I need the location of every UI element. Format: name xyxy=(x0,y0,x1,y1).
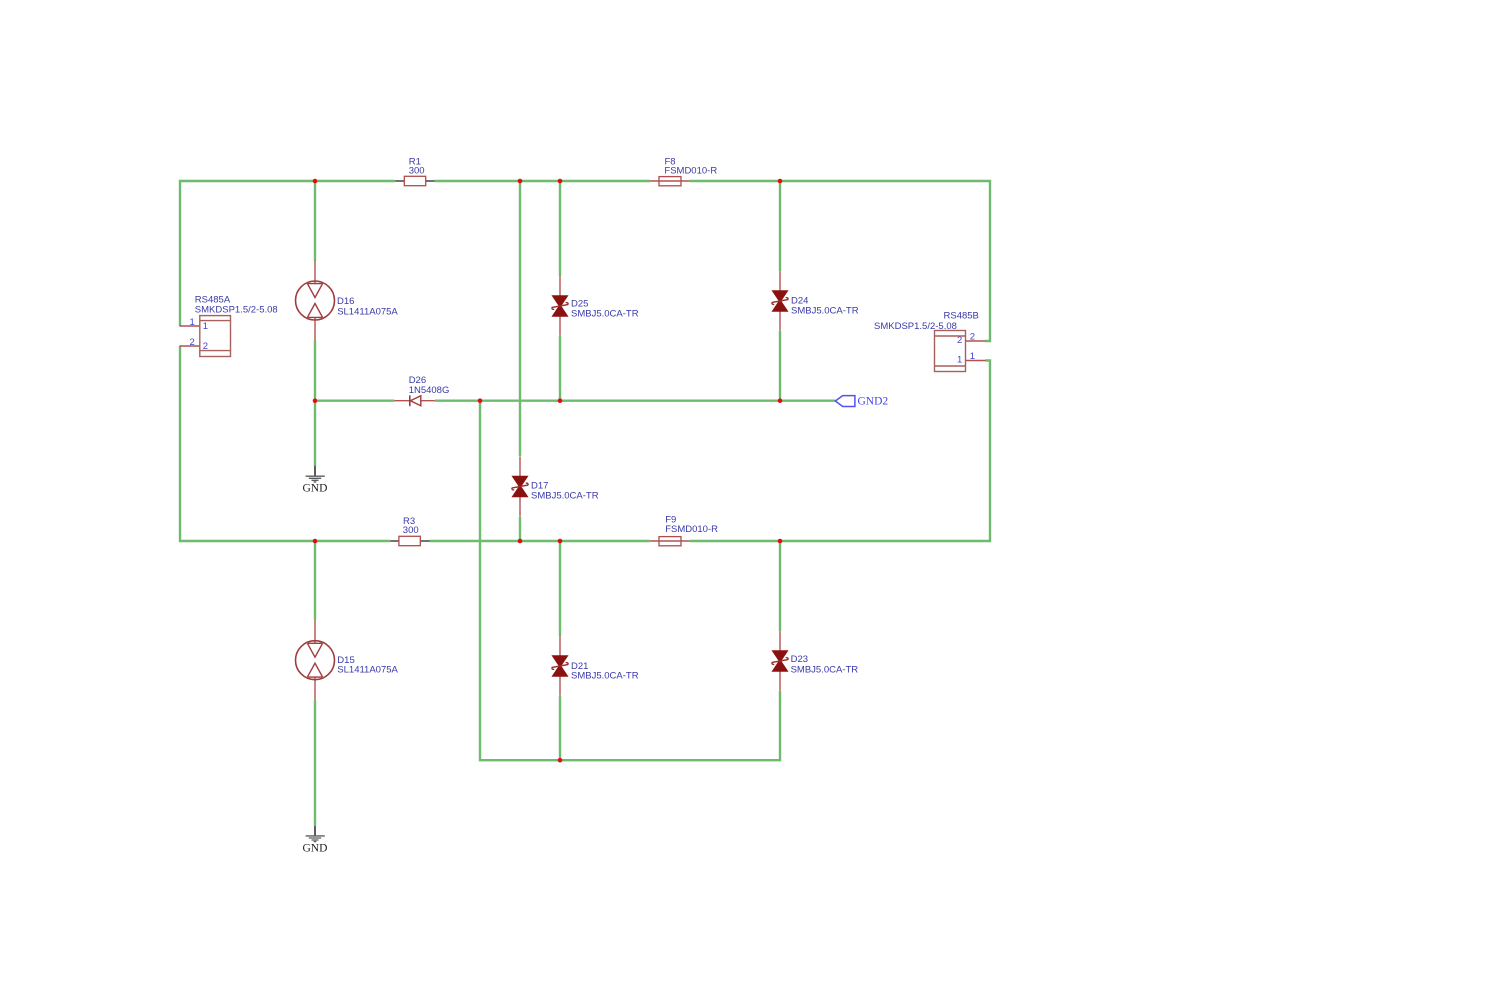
wire top rail left + left vertical upper xyxy=(180,181,395,326)
wire GND2 row right xyxy=(435,400,836,402)
TVS diode D17 xyxy=(512,457,599,517)
junction (560,181) xyxy=(558,179,563,184)
power port GND2 xyxy=(835,396,888,408)
svg-text:SMKDSP1.5/2-5.08: SMKDSP1.5/2-5.08 xyxy=(195,305,278,316)
junction (315,400.7) xyxy=(313,398,318,403)
svg-text:SMBJ5.0CA-TR: SMBJ5.0CA-TR xyxy=(571,671,639,682)
svg-text:1: 1 xyxy=(190,317,195,328)
svg-text:SMKDSP1.5/2-5.08: SMKDSP1.5/2-5.08 xyxy=(874,321,957,332)
svg-text:SL1411A075A: SL1411A075A xyxy=(337,306,398,317)
svg-text:300: 300 xyxy=(403,525,419,536)
wire D23 bottom + bottom-most rail + x480 vertical xyxy=(480,401,780,761)
junction (560,541) xyxy=(558,539,563,544)
svg-text:GND: GND xyxy=(303,842,328,854)
svg-text:1: 1 xyxy=(970,351,975,362)
diode D26 xyxy=(394,375,449,406)
wire D24 branch top xyxy=(779,181,781,271)
junction (780,400.7) xyxy=(778,398,783,403)
svg-text:SL1411A075A: SL1411A075A xyxy=(337,665,398,676)
junction (780,181) xyxy=(778,179,783,184)
wire x520 vertical lower xyxy=(519,517,521,541)
wire D21 branch top xyxy=(559,541,561,636)
svg-text:2: 2 xyxy=(970,332,975,343)
svg-text:1N5408G: 1N5408G xyxy=(409,385,450,396)
ground GND top xyxy=(303,466,328,495)
svg-text:1: 1 xyxy=(957,355,962,366)
JUNCTIONS xyxy=(313,179,783,763)
junction (560,760.2) xyxy=(558,758,563,763)
svg-text:SMBJ5.0CA-TR: SMBJ5.0CA-TR xyxy=(531,491,599,502)
junction (520,541) xyxy=(518,539,523,544)
surge arrester D15 xyxy=(296,620,399,700)
svg-text:GND: GND xyxy=(303,483,328,495)
wire bottom rail mid xyxy=(430,540,650,542)
svg-text:D16: D16 xyxy=(337,296,354,307)
resistor R1 xyxy=(395,156,434,185)
TVS diode D25 xyxy=(552,276,639,336)
wire D15 to GND xyxy=(314,700,316,826)
wire x520 vertical upper xyxy=(519,181,521,456)
wire D16 to node row xyxy=(314,340,316,400)
svg-text:2: 2 xyxy=(190,337,195,348)
junction (780,541) xyxy=(778,539,783,544)
svg-text:D23: D23 xyxy=(791,654,808,665)
wire left vertical lower + bottom rail left xyxy=(180,346,390,541)
TVS diode D21 xyxy=(552,636,639,696)
fuse F9 xyxy=(650,515,718,546)
svg-text:FSMD010-R: FSMD010-R xyxy=(665,524,718,535)
junction (520,181) xyxy=(518,179,523,184)
svg-text:2: 2 xyxy=(957,335,962,346)
resistor R3 xyxy=(390,516,429,546)
wire D16 branch top xyxy=(314,181,316,261)
wire D24 branch bottom xyxy=(779,331,781,401)
svg-text:SMBJ5.0CA-TR: SMBJ5.0CA-TR xyxy=(791,665,859,676)
connector RS485B xyxy=(874,311,986,372)
svg-text:GND2: GND2 xyxy=(858,396,889,408)
wire bottom rail right + right vertical lower + RS485B pin1 stub xyxy=(690,361,990,542)
wire GND2 row left xyxy=(315,400,394,402)
junction (480,400.7) xyxy=(478,398,483,403)
svg-text:SMBJ5.0CA-TR: SMBJ5.0CA-TR xyxy=(571,309,639,320)
connector RS485A xyxy=(180,295,278,357)
svg-text:FSMD010-R: FSMD010-R xyxy=(664,166,717,177)
svg-text:1: 1 xyxy=(203,321,208,332)
wire D23 branch top xyxy=(779,541,781,631)
wire D25 branch bottom xyxy=(559,336,561,401)
wire D15 branch top xyxy=(314,541,316,620)
wire node row to GND xyxy=(314,401,316,466)
svg-text:2: 2 xyxy=(203,341,208,352)
junction (560,400.7) xyxy=(558,398,563,403)
wire D25 branch top xyxy=(559,181,561,276)
svg-text:RS485B: RS485B xyxy=(944,311,979,322)
TVS diode D24 xyxy=(772,271,859,331)
surge arrester D16 xyxy=(296,261,399,341)
ground GND bottom xyxy=(303,826,328,855)
wire top rail right + right vertical upper + RS485B pin2 stub xyxy=(690,181,990,341)
junction (315,541) xyxy=(313,539,318,544)
fuse F8 xyxy=(650,156,717,185)
junction (315,181) xyxy=(313,179,318,184)
wire D21 branch bottom xyxy=(559,696,561,760)
TVS diode D23 xyxy=(772,631,858,691)
svg-text:300: 300 xyxy=(409,165,425,176)
wire top rail mid xyxy=(435,180,651,182)
svg-text:SMBJ5.0CA-TR: SMBJ5.0CA-TR xyxy=(791,305,859,316)
